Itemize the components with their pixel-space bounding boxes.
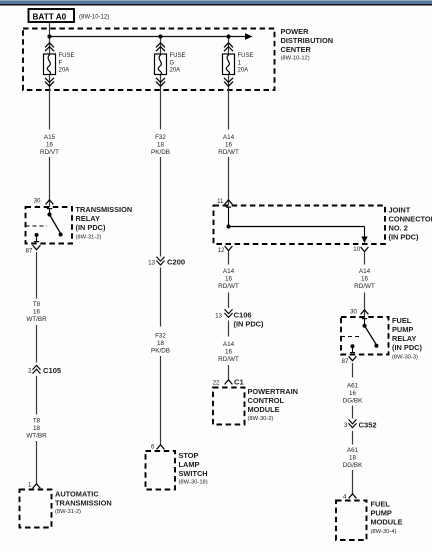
- svg-text:(8W-10-12): (8W-10-12): [79, 15, 109, 21]
- svg-text:18: 18: [157, 142, 165, 149]
- svg-text:C200: C200: [167, 258, 185, 267]
- svg-text:TRANSMISSION: TRANSMISSION: [55, 498, 112, 507]
- svg-text:WT/BR: WT/BR: [26, 433, 47, 440]
- svg-text:BATT A0: BATT A0: [33, 13, 67, 22]
- svg-text:16: 16: [225, 349, 233, 356]
- svg-text:RELAY: RELAY: [392, 334, 416, 343]
- svg-text:16: 16: [361, 276, 369, 283]
- svg-text:AUTOMATIC: AUTOMATIC: [55, 489, 99, 498]
- svg-text:30: 30: [34, 197, 41, 204]
- svg-text:PK/DB: PK/DB: [151, 348, 170, 355]
- svg-text:(8W-30-18): (8W-30-18): [179, 480, 208, 486]
- svg-text:2: 2: [28, 368, 32, 375]
- svg-text:CONTROL: CONTROL: [248, 396, 285, 405]
- svg-text:STOP: STOP: [179, 451, 199, 460]
- svg-text:20A: 20A: [59, 67, 70, 73]
- svg-text:3: 3: [344, 422, 348, 429]
- svg-text:CONNECTOR: CONNECTOR: [389, 215, 432, 224]
- svg-text:(IN PDC): (IN PDC): [234, 320, 265, 329]
- svg-text:C105: C105: [43, 366, 62, 375]
- svg-text:NO. 2: NO. 2: [389, 224, 408, 233]
- svg-text:(8W-31-2): (8W-31-2): [76, 235, 102, 241]
- svg-text:POWER: POWER: [281, 27, 310, 36]
- svg-text:87: 87: [342, 358, 349, 365]
- svg-text:WT/BR: WT/BR: [26, 316, 47, 323]
- svg-text:FUSE: FUSE: [59, 53, 75, 59]
- svg-text:A61: A61: [347, 447, 359, 454]
- svg-text:13: 13: [148, 259, 155, 266]
- svg-text:A14: A14: [223, 268, 235, 275]
- svg-text:(8W-10-12): (8W-10-12): [281, 56, 310, 62]
- svg-text:MODULE: MODULE: [248, 405, 280, 414]
- svg-text:F32: F32: [155, 333, 166, 340]
- svg-text:16: 16: [33, 309, 41, 316]
- svg-text:6: 6: [151, 444, 155, 451]
- svg-text:13: 13: [215, 313, 222, 320]
- svg-text:T8: T8: [33, 418, 41, 425]
- svg-text:PUMP: PUMP: [392, 325, 413, 334]
- svg-text:DG/BK: DG/BK: [343, 398, 363, 405]
- svg-text:FUSE: FUSE: [238, 53, 254, 59]
- svg-text:F: F: [59, 60, 63, 66]
- svg-text:C1: C1: [234, 378, 244, 387]
- svg-text:20A: 20A: [238, 67, 249, 73]
- svg-text:(8W-30-2): (8W-30-2): [248, 416, 274, 422]
- svg-text:16: 16: [349, 390, 357, 397]
- svg-text:1: 1: [28, 482, 32, 489]
- svg-text:POWERTRAIN: POWERTRAIN: [248, 387, 299, 396]
- svg-text:(IN PDC): (IN PDC): [389, 233, 420, 242]
- svg-text:PK/DB: PK/DB: [151, 149, 170, 156]
- svg-text:PUMP: PUMP: [371, 509, 392, 518]
- svg-text:12: 12: [218, 247, 225, 254]
- svg-text:(IN PDC): (IN PDC): [76, 223, 107, 232]
- svg-text:F32: F32: [155, 134, 166, 141]
- svg-text:A14: A14: [223, 134, 235, 141]
- svg-text:22: 22: [213, 379, 220, 386]
- svg-text:16: 16: [225, 142, 233, 149]
- svg-text:(8W-30-4): (8W-30-4): [371, 529, 397, 535]
- svg-text:RD/WT: RD/WT: [218, 356, 239, 363]
- svg-text:16: 16: [225, 276, 233, 283]
- svg-text:(IN PDC): (IN PDC): [392, 343, 423, 352]
- svg-text:30: 30: [350, 309, 357, 316]
- svg-text:A14: A14: [359, 268, 371, 275]
- svg-text:RD/WT: RD/WT: [218, 283, 239, 290]
- svg-text:T8: T8: [33, 301, 41, 308]
- svg-text:SWITCH: SWITCH: [179, 469, 208, 478]
- svg-text:FUEL: FUEL: [392, 316, 412, 325]
- svg-text:C352: C352: [359, 420, 377, 429]
- svg-text:LAMP: LAMP: [179, 460, 200, 469]
- svg-text:10: 10: [353, 246, 360, 253]
- svg-text:A14: A14: [223, 341, 235, 348]
- svg-text:A61: A61: [347, 383, 359, 390]
- svg-text:87: 87: [26, 247, 33, 254]
- svg-text:MODULE: MODULE: [371, 518, 403, 527]
- svg-text:C106: C106: [234, 311, 252, 320]
- svg-text:16: 16: [46, 142, 54, 149]
- svg-text:DG/BK: DG/BK: [343, 462, 363, 469]
- svg-text:DISTRIBUTION: DISTRIBUTION: [281, 36, 334, 45]
- svg-text:G: G: [170, 60, 175, 66]
- svg-text:RD/WT: RD/WT: [354, 283, 375, 290]
- svg-text:JOINT: JOINT: [389, 206, 411, 215]
- svg-text:18: 18: [157, 340, 165, 347]
- svg-text:20A: 20A: [170, 67, 181, 73]
- svg-text:18: 18: [33, 425, 41, 432]
- svg-text:(8W-30-3): (8W-30-3): [392, 354, 418, 360]
- svg-text:A15: A15: [44, 134, 56, 141]
- svg-text:TRANSMISSION: TRANSMISSION: [76, 205, 133, 214]
- svg-text:4: 4: [343, 493, 347, 500]
- svg-text:RD/WT: RD/WT: [218, 149, 239, 156]
- svg-text:RD/VT: RD/VT: [40, 149, 59, 156]
- svg-text:RELAY: RELAY: [76, 214, 100, 223]
- svg-text:CENTER: CENTER: [281, 45, 312, 54]
- svg-text:FUEL: FUEL: [371, 500, 391, 509]
- svg-text:(8W-31-2): (8W-31-2): [55, 509, 81, 515]
- svg-text:11: 11: [217, 198, 224, 205]
- svg-text:18: 18: [349, 455, 357, 462]
- svg-text:FUSE: FUSE: [170, 53, 186, 59]
